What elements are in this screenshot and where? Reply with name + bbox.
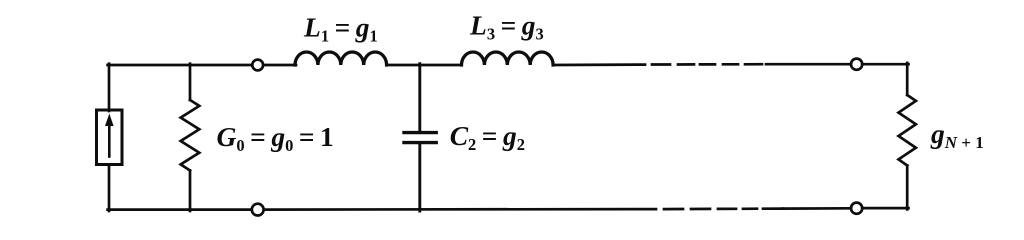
current source I1 (97, 110, 123, 165)
node: output port top (open circle) (851, 59, 862, 70)
wire: top solid after L3 (553, 63, 645, 66)
svg-text:L1 = g1: L1 = g1 (303, 12, 378, 46)
node: output port bottom (open circle) (851, 203, 862, 214)
wire: right vertical (upper lead of gN+1) (906, 63, 909, 95)
wire: bottom, right corner to output port (862, 207, 908, 210)
svg-text:gN + 1: gN + 1 (930, 118, 984, 152)
wire: left vertical (lower lead of current source) (108, 165, 111, 212)
svg-text:L3 = g3: L3 = g3 (469, 10, 544, 44)
wire: top-left horizontal (left corner to input port) (108, 64, 253, 67)
node: input port top (open circle) (252, 60, 263, 71)
wire: top, L1 to node A (387, 64, 420, 67)
svg-text:G0 = g0 = 1: G0 = g0 = 1 (217, 121, 334, 155)
wire: bottom solid from output port (783, 207, 851, 210)
svg-text:C2 = g2: C2 = g2 (450, 120, 525, 154)
wire: bottom dashed continuation (664, 207, 783, 210)
wire: top solid to output port (766, 63, 851, 66)
wire: left vertical (upper lead of current source) (108, 64, 111, 111)
wire: bottom solid, input port to dashed region (263, 208, 656, 211)
wire: top, node A to L3 (420, 64, 462, 67)
node A (junction L1 / C2 / L3) (418, 64, 421, 131)
capacitor C2 (404, 133, 436, 211)
resistor gN+1 (899, 95, 916, 166)
wire: top, input port to L1 (263, 64, 296, 67)
inductor L1 (295, 52, 387, 65)
wire: top dashed continuation (652, 63, 762, 66)
resistor G0 (181, 64, 200, 211)
wire: right vertical (lower lead of gN+1) (906, 166, 909, 210)
node: input port bottom (open circle) (252, 204, 264, 216)
wire: top, output port to right corner (862, 63, 908, 66)
wire: bottom-left horizontal (left corner to input port) (108, 208, 253, 211)
inductor L3 (462, 52, 554, 65)
